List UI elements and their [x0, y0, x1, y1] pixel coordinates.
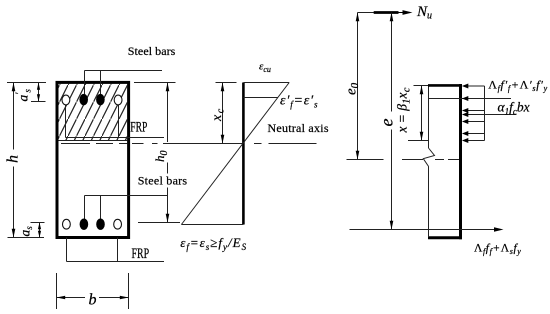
svg-text:h: h — [5, 155, 22, 163]
svg-text:Steel bars: Steel bars — [128, 44, 176, 58]
svg-text:ε′f=ε′s: ε′f=ε′s — [280, 94, 318, 110]
svg-text:a′s: a′s — [15, 89, 33, 102]
svg-text:e: e — [377, 119, 397, 127]
svg-text:Nu: Nu — [416, 4, 432, 22]
svg-text:e0: e0 — [344, 82, 362, 95]
svg-text:x = β1xc: x = β1xc — [395, 87, 413, 133]
svg-text:FRP: FRP — [132, 245, 150, 262]
svg-text:εcu: εcu — [259, 61, 271, 75]
svg-text:as: as — [18, 226, 35, 237]
svg-text:b: b — [89, 292, 97, 309]
svg-text:xc: xc — [210, 107, 227, 122]
svg-text:FRP: FRP — [130, 118, 147, 135]
svg-text:h0: h0 — [152, 151, 170, 163]
svg-text:Λfff+Λsfy: Λfff+Λsfy — [474, 243, 521, 257]
svg-text:Neutral axis: Neutral axis — [268, 121, 329, 135]
svg-text:Steel bars: Steel bars — [138, 174, 188, 188]
svg-text:Λff′f+Λ′sf′y: Λff′f+Λ′sf′y — [488, 78, 548, 94]
svg-text:εf=εs≥fy/ES: εf=εs≥fy/ES — [180, 235, 247, 252]
svg-text:α1fcbx: α1fcbx — [498, 100, 530, 117]
